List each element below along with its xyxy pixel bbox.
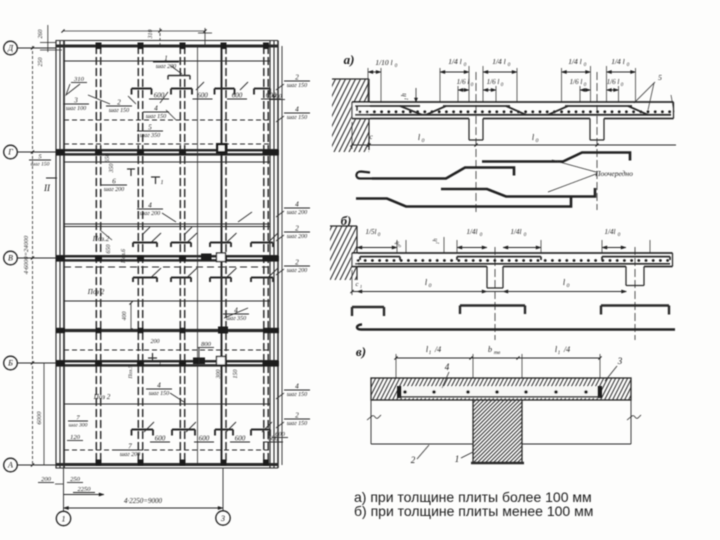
svg-text:260: 260	[38, 30, 44, 39]
svg-text:1: 1	[405, 98, 410, 101]
svg-text:4: 4	[295, 106, 299, 114]
svg-text:120: 120	[70, 434, 81, 441]
svg-text:шаг 150: шаг 150	[31, 162, 50, 168]
svg-text:0: 0	[536, 138, 539, 144]
svg-text:600: 600	[275, 431, 286, 438]
svg-text:h: h	[432, 238, 439, 241]
svg-text:II: II	[43, 183, 51, 193]
svg-text:h: h	[394, 241, 401, 244]
svg-text:4: 4	[157, 382, 161, 390]
svg-text:800: 800	[201, 341, 212, 348]
svg-text:1/4l: 1/4l	[605, 228, 616, 236]
svg-text:шаг 150: шаг 150	[109, 108, 129, 114]
svg-text:7: 7	[128, 443, 132, 451]
svg-text:шаг 150: шаг 150	[149, 391, 169, 397]
svg-text:шаг 200: шаг 200	[104, 187, 124, 193]
svg-text:2: 2	[295, 225, 299, 233]
svg-text:6000: 6000	[36, 411, 43, 425]
svg-text:1/4 l: 1/4 l	[568, 57, 582, 66]
svg-text:1/6 l: 1/6 l	[487, 78, 500, 86]
svg-text:c: c	[356, 281, 359, 288]
svg-text:шаг 200: шаг 200	[120, 452, 140, 458]
svg-text:3: 3	[73, 97, 78, 105]
svg-text:4·6000=24000: 4·6000=24000	[23, 235, 30, 274]
svg-text:тв: тв	[494, 350, 501, 356]
svg-text:4: 4	[445, 362, 450, 372]
svg-text:650: 650	[105, 154, 111, 163]
svg-text:1: 1	[62, 515, 66, 524]
svg-text:350: 350	[109, 164, 115, 174]
svg-text:В: В	[8, 254, 13, 263]
svg-text:Поз.6: Поз.6	[121, 249, 127, 264]
svg-text:600: 600	[197, 92, 208, 100]
svg-text:1/4 l: 1/4 l	[611, 57, 625, 66]
svg-text:Поз.5: Поз.5	[128, 365, 134, 379]
svg-text:200: 200	[41, 476, 52, 483]
svg-text:Поз 2: Поз 2	[87, 288, 105, 296]
svg-text:1: 1	[360, 284, 362, 289]
svg-text:б) при толщине плиты менее 100: б) при толщине плиты менее 100 мм	[354, 503, 593, 519]
svg-text:1/4 l: 1/4 l	[492, 57, 506, 66]
svg-text:/4: /4	[434, 345, 441, 354]
svg-text:4: 4	[154, 105, 158, 113]
svg-text:шаг 150: шаг 150	[287, 392, 307, 398]
svg-text:310: 310	[148, 30, 154, 40]
svg-text:/4: /4	[563, 345, 570, 354]
svg-text:шаг 100: шаг 100	[66, 106, 86, 112]
svg-text:шаг 300: шаг 300	[69, 423, 88, 429]
svg-text:1: 1	[558, 351, 561, 356]
svg-text:3: 3	[617, 356, 623, 366]
svg-text:2: 2	[117, 99, 121, 107]
svg-text:600: 600	[155, 435, 166, 443]
svg-text:4: 4	[295, 383, 299, 391]
svg-text:Поочередно: Поочередно	[594, 169, 633, 178]
svg-text:шаг 200: шаг 200	[287, 268, 307, 274]
svg-text:1/6 l: 1/6 l	[457, 78, 470, 86]
svg-text:шаг 150: шаг 150	[287, 421, 307, 427]
svg-text:Г: Г	[7, 148, 13, 157]
svg-text:шаг 350: шаг 350	[140, 133, 160, 139]
svg-text:1: 1	[455, 454, 460, 464]
svg-text:250: 250	[70, 476, 81, 483]
svg-text:1: 1	[435, 242, 440, 244]
svg-text:6: 6	[112, 178, 116, 186]
svg-text:600: 600	[235, 435, 246, 443]
svg-text:шаг 150: шаг 150	[146, 114, 166, 120]
svg-text:1: 1	[161, 180, 164, 186]
svg-text:h: h	[400, 93, 408, 97]
svg-text:1/4 l: 1/4 l	[448, 57, 462, 66]
svg-text:200: 200	[151, 339, 160, 345]
svg-text:1: 1	[429, 351, 432, 356]
svg-text:2: 2	[295, 74, 299, 82]
svg-text:310: 310	[73, 76, 85, 83]
svg-text:4: 4	[295, 201, 299, 209]
svg-text:650: 650	[106, 245, 112, 254]
svg-text:шаг 200: шаг 200	[156, 64, 176, 70]
svg-text:5: 5	[658, 73, 662, 82]
svg-text:1: 1	[159, 362, 162, 368]
svg-text:в): в)	[356, 344, 366, 359]
svg-text:1/5l: 1/5l	[366, 228, 377, 236]
svg-text:600: 600	[272, 93, 283, 100]
svg-text:b: b	[488, 345, 492, 354]
svg-text:2: 2	[295, 259, 299, 267]
svg-text:шаг 150: шаг 150	[287, 115, 307, 121]
svg-text:2: 2	[295, 412, 299, 420]
svg-text:600: 600	[232, 92, 243, 100]
svg-text:1: 1	[164, 55, 168, 63]
svg-text:400: 400	[121, 312, 128, 321]
svg-text:150: 150	[233, 370, 239, 379]
svg-text:5: 5	[148, 124, 152, 132]
svg-text:4·2250=9000: 4·2250=9000	[124, 497, 162, 505]
svg-text:шаг 350: шаг 350	[226, 316, 246, 322]
svg-text:1/6 l: 1/6 l	[570, 78, 583, 86]
svg-text:0: 0	[422, 138, 425, 144]
svg-text:600: 600	[199, 435, 210, 443]
svg-text:Д: Д	[7, 44, 14, 53]
svg-text:А: А	[7, 461, 13, 470]
svg-text:4: 4	[148, 202, 152, 210]
svg-text:1/4l: 1/4l	[511, 228, 522, 236]
svg-text:шаг 150: шаг 150	[287, 83, 307, 89]
svg-text:Б: Б	[7, 359, 13, 368]
svg-text:2: 2	[411, 455, 416, 465]
svg-text:0: 0	[429, 283, 432, 289]
svg-text:1/6 l: 1/6 l	[607, 78, 620, 86]
svg-text:300: 300	[216, 370, 222, 380]
svg-text:шаг 200: шаг 200	[287, 210, 307, 216]
svg-text:2250: 2250	[78, 486, 92, 493]
svg-text:шаг 200: шаг 200	[287, 234, 307, 240]
svg-text:шаг 200: шаг 200	[140, 211, 160, 217]
svg-text:Поз 2: Поз 2	[93, 393, 111, 401]
svg-text:250: 250	[38, 58, 44, 67]
svg-text:1/4l: 1/4l	[467, 228, 478, 236]
svg-text:3: 3	[220, 514, 225, 523]
svg-text:0: 0	[567, 283, 570, 289]
svg-text:а): а)	[344, 52, 355, 67]
svg-text:1/10 l: 1/10 l	[375, 58, 392, 67]
